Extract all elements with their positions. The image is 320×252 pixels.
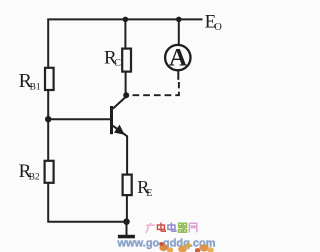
svg-text:B1: B1: [30, 82, 41, 92]
svg-text:A: A: [169, 45, 187, 72]
svg-text:C: C: [114, 58, 121, 69]
svg-text:B2: B2: [29, 173, 40, 183]
svg-text:O: O: [214, 22, 222, 33]
svg-text:E: E: [146, 188, 152, 199]
